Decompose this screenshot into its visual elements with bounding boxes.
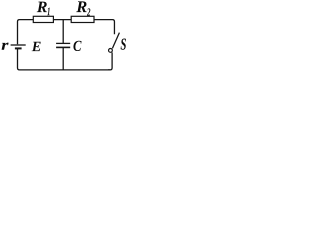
label R2 'R' bbox=[76, 1, 86, 12]
wire: top between R1 and R2 bbox=[54, 19, 71, 21]
wire: capacitor branch from top wire down to top plate bbox=[62, 20, 64, 43]
switch S pivot circle bbox=[109, 49, 113, 53]
label E (emf) bbox=[32, 42, 41, 51]
label R1 'R' bbox=[37, 2, 47, 12]
battery E: short thick plate (bottom) bbox=[15, 47, 22, 49]
label R2 subscript 2 bbox=[87, 8, 90, 15]
label R1 subscript 1 bbox=[47, 8, 49, 16]
wire: top-left corner and left vertical down to battery bbox=[18, 20, 34, 45]
wire: below switch down to bottom-right corner bbox=[108, 52, 112, 70]
battery E: long plate (top) bbox=[11, 44, 26, 46]
label r (internal resistance) bbox=[2, 43, 9, 50]
wire: bottom horizontal bbox=[18, 49, 111, 70]
resistor R2 bbox=[71, 16, 94, 22]
switch S blade (diagonal) bbox=[112, 33, 119, 49]
capacitor C: top plate bbox=[56, 42, 70, 44]
label C (capacitor) bbox=[73, 41, 81, 51]
wire: top-right from R2 to corner, right vertical down to switch terminal bbox=[94, 20, 114, 35]
resistor R1 bbox=[33, 16, 53, 22]
wire: capacitor branch from bottom plate down to bottom wire bbox=[62, 48, 64, 70]
capacitor C: bottom plate bbox=[56, 46, 70, 48]
label S (switch) bbox=[121, 39, 126, 50]
